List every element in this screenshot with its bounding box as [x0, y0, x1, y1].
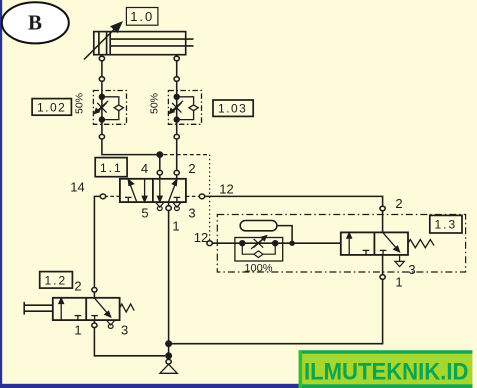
timer valve 1.3 (3/2 way, pilot/spring) — [341, 232, 408, 255]
valve 1.1 (5/2 way, double pilot) — [120, 179, 186, 202]
valve 1.2 right box arrow — [91, 298, 110, 320]
wire valve 1.2 port 1 to supply junction — [94, 328, 165, 356]
valve 1.3 left box arrow — [347, 233, 369, 255]
svg-text:14: 14 — [70, 180, 84, 195]
cylinder adjustment arrow — [84, 23, 122, 60]
wire between supply junctions — [168, 344, 170, 356]
valve 1.2 port 1 — [92, 320, 97, 328]
valve 1.2 spring — [120, 304, 135, 312]
svg-text:1.2: 1.2 — [45, 274, 68, 288]
left blue border strip — [0, 0, 2, 388]
valve 1.2 exhaust port 3 — [107, 320, 115, 328]
svg-text:B: B — [28, 11, 42, 35]
wire junction down to port 4 — [157, 155, 162, 178]
label box 1.0 — [126, 8, 157, 26]
svg-text:5: 5 — [141, 206, 148, 221]
bottom blue border strip — [0, 384, 299, 388]
valve 1.1 pilot 12 (dashed stub + port) — [186, 194, 205, 199]
valve 1.3 spring — [408, 240, 434, 248]
valve 1.1 port 1 — [166, 202, 171, 210]
label box 1.1 — [95, 158, 127, 177]
svg-text:2: 2 — [74, 279, 81, 294]
junction node supply upper — [165, 340, 172, 347]
svg-text:50%: 50% — [74, 93, 86, 114]
valve 1.2 left box arrow — [59, 298, 81, 320]
valve 1.1 exhaust port 5 — [156, 203, 164, 211]
svg-text:1.02: 1.02 — [37, 100, 66, 114]
svg-text:1: 1 — [395, 275, 402, 290]
wire flow control 1.02 to valve 1.1 port 4 — [102, 139, 160, 155]
svg-text:12: 12 — [194, 230, 208, 245]
svg-text:1.1: 1.1 — [100, 161, 123, 175]
valve 1.1 left box arrows — [125, 179, 147, 202]
label box 1.03 — [213, 100, 253, 116]
wire pilot 12 to timer valve port 2 — [205, 196, 383, 206]
svg-text:3: 3 — [408, 262, 415, 277]
svg-text:4: 4 — [141, 161, 148, 176]
valve 1.1 right box arrows — [158, 179, 181, 202]
timer throttle (100%) flow control — [235, 236, 341, 262]
timer input port circle — [207, 241, 212, 246]
svg-text:100%: 100% — [244, 263, 272, 275]
valve 1.2 plunger actuator — [24, 302, 53, 315]
svg-text:12: 12 — [219, 182, 233, 197]
valve 1.3 exhaust port 3 — [395, 255, 404, 267]
wire cylinder left port — [99, 55, 104, 77]
flow control valve 1.02 — [93, 77, 126, 139]
wire valve 1.1 port 1 down to supply junction — [168, 211, 170, 344]
svg-text:1.0: 1.0 — [130, 9, 154, 24]
svg-text:2: 2 — [395, 196, 402, 211]
compressed air supply source — [160, 359, 177, 373]
wire flow control 1.03 down to valve 1.1 port 2 — [174, 139, 179, 178]
svg-text:ILMUTEKNIK.ID: ILMUTEKNIK.ID — [304, 358, 468, 385]
wire timer input to throttle — [212, 242, 242, 244]
junction node reservoir/throttle output — [289, 241, 294, 246]
valve 1.3 right box arrow — [380, 233, 400, 255]
timer group dash-dot box — [217, 215, 465, 273]
junction node supply lower — [165, 352, 172, 359]
svg-text:50%: 50% — [149, 93, 161, 114]
wire pilot 14 to valve 1.2 port 2 — [94, 196, 100, 287]
junction node above port 4 — [156, 151, 163, 158]
label ellipse B — [2, 2, 69, 43]
valve 1.3 port 1 — [380, 255, 385, 279]
label box 1.02 — [32, 99, 71, 116]
wire supply junction to timer valve port 1 — [169, 279, 383, 343]
wire cylinder right port — [174, 55, 179, 77]
valve 1.1 pilot 14 (dashed stub + port) — [100, 194, 120, 199]
svg-text:1: 1 — [74, 323, 81, 338]
wire valve 1.3 port 2 stub — [382, 211, 384, 233]
valve 1.3 port 2 — [380, 206, 385, 211]
air reservoir — [240, 221, 292, 241]
label box 1.2 — [40, 272, 73, 289]
valve 1.2 (3/2 way, plunger/spring) — [53, 298, 120, 320]
svg-text:3: 3 — [121, 323, 128, 338]
label box 1.3 — [430, 215, 462, 233]
svg-text:1: 1 — [172, 219, 179, 234]
valve 1.1 exhaust port 3 — [173, 203, 181, 211]
dashed pilot branch wire from junction to timer input — [163, 155, 209, 241]
svg-text:1.03: 1.03 — [218, 102, 247, 116]
valve 1.2 port 2 — [92, 288, 97, 298]
cylinder 1.0 (double acting) — [94, 32, 194, 55]
svg-text:2: 2 — [188, 161, 195, 176]
svg-text:3: 3 — [188, 206, 195, 221]
svg-text:1.3: 1.3 — [435, 218, 458, 232]
flow control valve 1.03 — [168, 77, 201, 139]
banner ILMUTEKNIK.ID — [299, 350, 473, 388]
